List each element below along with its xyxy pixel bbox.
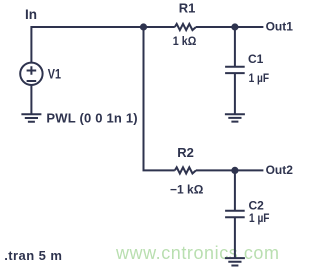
svg-text:1 µF: 1 µF <box>249 211 270 225</box>
svg-text:1 kΩ: 1 kΩ <box>173 34 197 48</box>
svg-text:.tran 5 m: .tran 5 m <box>4 248 62 263</box>
svg-text:C1: C1 <box>248 52 264 66</box>
svg-text:V1: V1 <box>48 67 62 82</box>
svg-text:www.cntronics.com: www.cntronics.com <box>115 243 280 263</box>
svg-text:R1: R1 <box>179 1 196 16</box>
svg-text:−1 kΩ: −1 kΩ <box>170 183 204 197</box>
svg-text:In: In <box>25 7 37 22</box>
svg-text:R2: R2 <box>177 145 194 160</box>
svg-text:Out1: Out1 <box>266 20 294 34</box>
svg-text:Out2: Out2 <box>266 163 294 177</box>
svg-text:1 µF: 1 µF <box>249 71 270 85</box>
svg-text:PWL (0 0 1n 1): PWL (0 0 1n 1) <box>46 111 137 126</box>
